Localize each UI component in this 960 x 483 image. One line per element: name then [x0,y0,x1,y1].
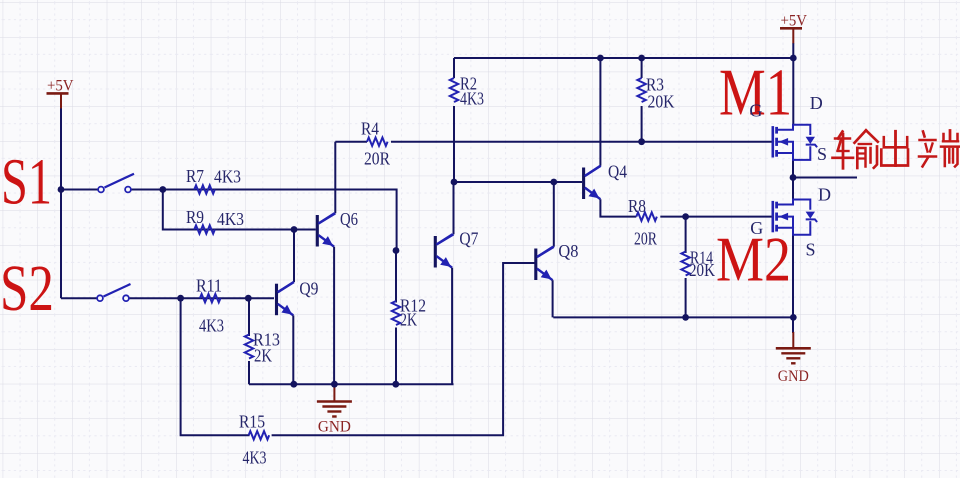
svg-text:R9: R9 [186,207,204,227]
svg-text:GND: GND [778,368,809,385]
svg-text:+5V: +5V [47,78,74,95]
svg-text:G: G [750,218,763,238]
svg-text:D: D [818,185,831,205]
svg-text:20K: 20K [648,91,675,111]
svg-text:Q6: Q6 [340,209,358,229]
svg-text:4K3: 4K3 [460,88,484,108]
svg-text:S: S [806,240,816,260]
svg-text:D: D [810,93,823,113]
svg-text:R4: R4 [361,118,379,138]
svg-text:2K: 2K [400,309,417,329]
svg-text:+5V: +5V [781,13,808,30]
svg-text:R15: R15 [239,412,265,432]
svg-text:GND: GND [318,419,351,436]
svg-text:20K: 20K [689,260,715,280]
svg-text:4K3: 4K3 [243,447,267,467]
svg-text:Q7: Q7 [459,228,478,248]
svg-text:4K3: 4K3 [217,209,244,229]
svg-text:R11: R11 [196,275,222,295]
svg-text:2K: 2K [254,345,272,365]
svg-text:S2: S2 [0,252,54,325]
svg-text:4K3: 4K3 [214,167,241,187]
svg-text:S: S [817,144,827,164]
svg-text:Q8: Q8 [558,241,578,261]
svg-text:Q9: Q9 [299,278,318,298]
svg-text:Q4: Q4 [608,161,627,181]
svg-text:G: G [749,101,762,121]
svg-text:R7: R7 [186,166,204,186]
svg-text:20R: 20R [364,148,390,168]
svg-text:4K3: 4K3 [199,316,224,336]
svg-text:S1: S1 [1,146,52,219]
svg-text:R8: R8 [628,196,646,216]
svg-text:20R: 20R [634,228,657,248]
